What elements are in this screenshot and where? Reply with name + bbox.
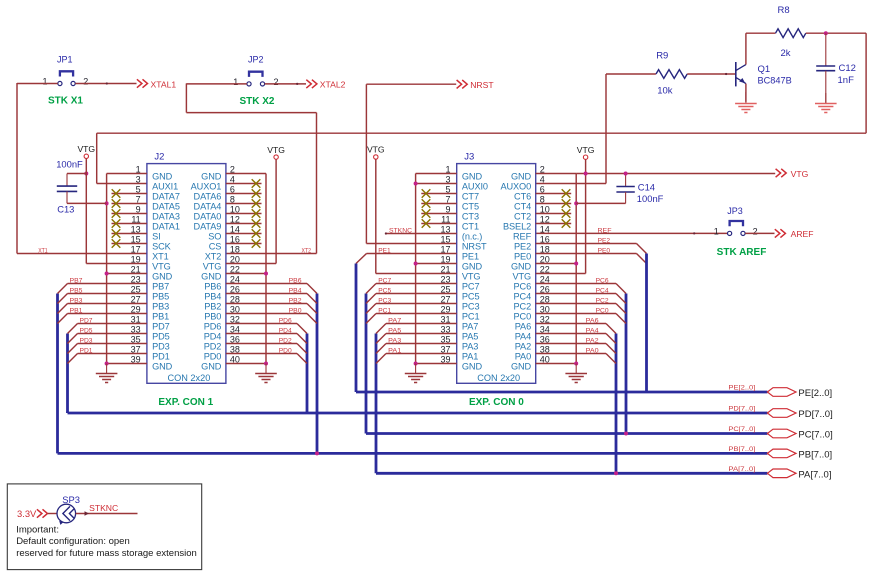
- note text: [16, 524, 197, 559]
- wire PE1 with bus entry (J3 pin17): [356, 247, 457, 263]
- connector J3 pin names: [462, 172, 532, 372]
- svg-text:PA7: PA7: [462, 322, 478, 332]
- svg-text:PA0: PA0: [515, 352, 531, 362]
- svg-text:JP1: JP1: [57, 54, 73, 64]
- svg-text:STKNC: STKNC: [89, 503, 118, 513]
- wire XT1 net (JP1 pin1 to J2 pin17): [17, 83, 147, 254]
- svg-text:CON 2x20: CON 2x20: [477, 373, 520, 383]
- svg-text:PE1: PE1: [378, 247, 391, 254]
- svg-text:PE[2..0]: PE[2..0]: [798, 388, 832, 399]
- chevron 3.3V: [37, 509, 48, 517]
- port XTAL2: [306, 80, 345, 90]
- svg-text:PD6: PD6: [204, 322, 222, 332]
- svg-text:VTG: VTG: [203, 262, 222, 272]
- svg-text:PE0: PE0: [598, 248, 611, 255]
- svg-text:EXP. CON 1: EXP. CON 1: [158, 397, 213, 408]
- power VTG at J3 left: [374, 155, 378, 159]
- wires J3 pins 23-29 PC7 PC5 PC3 PC1 with bus entries: [366, 278, 457, 324]
- no-connect X marks J3 left pins 5-11: [421, 189, 456, 228]
- svg-text:PE0: PE0: [514, 252, 531, 262]
- svg-text:GND: GND: [511, 262, 532, 272]
- svg-text:PD2: PD2: [204, 342, 222, 352]
- svg-text:VTG: VTG: [462, 272, 481, 282]
- svg-text:PB2: PB2: [289, 298, 302, 305]
- svg-text:CON 2x20: CON 2x20: [167, 373, 210, 383]
- power VTG at J2 left: [84, 154, 88, 158]
- svg-text:PB7: PB7: [70, 278, 83, 285]
- svg-text:NRST: NRST: [470, 80, 494, 90]
- port XTAL1: [137, 79, 176, 89]
- jumper JP1: [42, 54, 88, 86]
- svg-text:PD7: PD7: [80, 318, 93, 325]
- svg-text:VTG: VTG: [791, 169, 809, 179]
- svg-text:2k: 2k: [781, 48, 791, 59]
- bus PA right of J3: [615, 334, 618, 474]
- svg-text:10k: 10k: [657, 86, 673, 97]
- svg-text:GND: GND: [462, 172, 483, 182]
- wire VTG drop to J3 pin22: [536, 159, 586, 273]
- svg-text:PB3: PB3: [70, 298, 83, 305]
- svg-text:Important:: Important:: [16, 524, 59, 535]
- svg-text:JP3: JP3: [727, 206, 743, 216]
- svg-text:1nF: 1nF: [838, 75, 855, 86]
- svg-text:reserved for future mass stora: reserved for future mass storage extensi…: [16, 548, 197, 559]
- connector J2 pin numbers: [131, 165, 240, 365]
- wire XT2 net (JP2 pin1 to J2 pin18): [186, 83, 316, 253]
- wire JP3 pin2 to AREF: [745, 232, 774, 234]
- svg-text:PD[7..0]: PD[7..0]: [728, 406, 755, 413]
- svg-text:PB2: PB2: [204, 302, 221, 312]
- solder point SP3 symbol: [57, 504, 76, 525]
- wire VTG drop to J3 pin21: [376, 159, 457, 273]
- svg-text:AUXI0: AUXI0: [462, 182, 488, 192]
- svg-text:PB0: PB0: [204, 312, 221, 322]
- svg-text:DATA5: DATA5: [152, 202, 180, 212]
- svg-text:GND: GND: [462, 362, 483, 372]
- svg-text:PA4: PA4: [586, 328, 599, 335]
- bus PE left of J3: [355, 264, 358, 393]
- bus PB[7..0] horizontal: [58, 452, 768, 455]
- svg-text:BSEL2: BSEL2: [503, 222, 531, 232]
- svg-text:CT6: CT6: [514, 192, 531, 202]
- svg-text:PC2: PC2: [514, 302, 532, 312]
- svg-text:GND: GND: [201, 172, 222, 182]
- connector J3 box: [457, 164, 536, 384]
- transistor Q1 BC847B: [736, 62, 792, 86]
- svg-text:PA5: PA5: [462, 332, 478, 342]
- svg-text:XT1: XT1: [152, 252, 169, 262]
- wire REF net (J3 pin14 to JP3): [536, 232, 728, 234]
- svg-text:PD6: PD6: [279, 318, 292, 325]
- svg-text:PC1: PC1: [378, 308, 391, 315]
- svg-text:17: 17: [131, 245, 141, 255]
- svg-text:SI: SI: [152, 232, 160, 242]
- wire STKNC from SP3: [76, 511, 138, 515]
- svg-text:3.3V: 3.3V: [17, 508, 37, 519]
- svg-text:GND: GND: [511, 362, 532, 372]
- svg-text:GND: GND: [462, 262, 483, 272]
- wire J3 GND left rail (pins 1,3,19,39): [416, 174, 457, 364]
- ground below J3 right: [575, 364, 577, 374]
- connector J2 box: [147, 164, 226, 384]
- svg-text:DATA6: DATA6: [194, 192, 222, 202]
- wires J3 pins 32-38 PA6 PA4 PA2 PA0 with bus entries: [536, 318, 616, 364]
- svg-text:PD3: PD3: [80, 338, 93, 345]
- svg-text:PE2: PE2: [514, 242, 531, 252]
- svg-text:SP3: SP3: [62, 494, 80, 505]
- port PD[7..0]: [728, 406, 832, 420]
- port PB[7..0]: [728, 446, 832, 460]
- svg-text:2: 2: [753, 227, 758, 237]
- bus PC left of J3: [365, 294, 368, 434]
- wire R9 to Q1 base: [687, 73, 735, 75]
- svg-text:PB0: PB0: [289, 308, 302, 315]
- svg-text:AREF: AREF: [791, 229, 814, 239]
- svg-text:PB4: PB4: [289, 288, 302, 295]
- svg-text:CT2: CT2: [514, 212, 531, 222]
- port VTG: [776, 169, 809, 179]
- svg-text:PC5: PC5: [378, 288, 391, 295]
- bus PE[2..0] horizontal: [356, 391, 767, 394]
- svg-text:PC[7..0]: PC[7..0]: [798, 430, 832, 441]
- svg-text:PB5: PB5: [152, 292, 169, 302]
- svg-text:R9: R9: [656, 51, 668, 62]
- wire R8 to C12 node: [806, 32, 866, 34]
- svg-text:PA6: PA6: [515, 322, 531, 332]
- svg-text:PC0: PC0: [596, 308, 609, 315]
- svg-text:VTG: VTG: [267, 145, 285, 155]
- svg-text:REF: REF: [513, 232, 532, 242]
- junction dots J2 right rail: [264, 272, 268, 276]
- power VTG at J2 right: [274, 155, 278, 159]
- svg-text:GND: GND: [152, 172, 173, 182]
- svg-text:AUXI1: AUXI1: [152, 182, 178, 192]
- wires J2 pins 24-30 PB6 PB4 PB2 PB0 with bus entries: [226, 278, 317, 324]
- capacitor C13 100nF: [56, 159, 106, 215]
- no-connect X marks J3 right pins 6-12: [536, 189, 572, 228]
- svg-text:PD7: PD7: [152, 322, 170, 332]
- svg-text:PB6: PB6: [204, 282, 221, 292]
- svg-text:PB1: PB1: [70, 308, 83, 315]
- wires J2 pins 23-29 PB7 PB5 PB3 PB1 with bus entries: [58, 278, 147, 324]
- svg-text:PC3: PC3: [378, 298, 391, 305]
- junction dots J3 right rail: [574, 201, 578, 205]
- svg-text:2: 2: [274, 77, 279, 87]
- svg-text:VTG: VTG: [577, 145, 595, 155]
- note box SP3: [7, 484, 201, 570]
- svg-text:XT2: XT2: [302, 247, 312, 254]
- port NRST: [457, 80, 495, 90]
- svg-text:PA5: PA5: [388, 328, 401, 335]
- svg-text:CT5: CT5: [462, 202, 479, 212]
- svg-text:JP2: JP2: [248, 55, 264, 65]
- svg-text:PB7: PB7: [152, 282, 169, 292]
- svg-text:CT1: CT1: [462, 222, 479, 232]
- svg-text:100nF: 100nF: [637, 193, 664, 204]
- wire VTG drop to J2 pin19: [86, 159, 147, 264]
- svg-text:C13: C13: [57, 204, 74, 215]
- no-connect X marks J2 left pins 5-15: [112, 189, 147, 248]
- wires J3 pins 24-30 PC6 PC4 PC2 PC0 with bus entries: [536, 278, 626, 324]
- wire AUX net (J2 AUXI1 to R8/C12 node): [97, 33, 866, 183]
- svg-text:PB1: PB1: [152, 312, 169, 322]
- svg-text:PA2: PA2: [515, 342, 531, 352]
- svg-text:3: 3: [136, 175, 141, 185]
- connector J3 pin numbers: [440, 165, 549, 365]
- svg-text:VTG: VTG: [77, 144, 95, 154]
- wire J2 GND left rail (pins 1,21,39): [107, 174, 147, 364]
- svg-text:PD4: PD4: [204, 332, 222, 342]
- bus PE right of J3: [645, 254, 648, 393]
- svg-text:REF: REF: [598, 227, 612, 234]
- svg-text:EXP. CON 0: EXP. CON 0: [469, 397, 524, 408]
- svg-text:18: 18: [230, 245, 240, 255]
- wire JP1 pin2 to XTAL1: [75, 82, 136, 84]
- wires J2 pins 32-38 PD6 PD4 PD2 PD0 with bus entries: [226, 318, 307, 364]
- svg-text:CT7: CT7: [462, 192, 479, 202]
- svg-text:PA4: PA4: [515, 332, 531, 342]
- svg-text:PC5: PC5: [462, 292, 480, 302]
- wires PE2 PE0 with bus entries (J3 pins 16,18): [536, 238, 647, 264]
- junction R8/C12: [824, 31, 828, 35]
- bus PD right of J2: [306, 334, 309, 414]
- junction dots bus tees: [315, 451, 319, 455]
- svg-text:PE[2..0]: PE[2..0]: [728, 385, 755, 392]
- svg-text:SO: SO: [208, 232, 221, 242]
- no-connect X marks J2 right pins 4-16: [226, 179, 262, 248]
- wires J2 pins 31-37 PD7 PD5 PD3 PD1 with bus entries: [68, 318, 147, 364]
- wires J3 pins 31-37 PA7 PA5 PA3 PA1 with bus entries: [376, 318, 457, 364]
- svg-text:DATA1: DATA1: [152, 222, 180, 232]
- svg-text:PB[7..0]: PB[7..0]: [798, 449, 832, 460]
- port AREF: [775, 229, 814, 239]
- ground below J2 left: [106, 364, 108, 374]
- bus PC right of J3: [625, 294, 628, 434]
- wire J3 GND right rail (pins 2,20,40): [536, 174, 577, 364]
- svg-text:STKNC: STKNC: [389, 227, 412, 234]
- svg-text:PC[7..0]: PC[7..0]: [728, 426, 755, 433]
- svg-text:PC3: PC3: [462, 302, 480, 312]
- capacitor C12: [816, 33, 856, 103]
- svg-text:PD4: PD4: [279, 328, 292, 335]
- ground below J2 right: [265, 364, 267, 374]
- port PE[2..0]: [728, 385, 832, 399]
- svg-text:14: 14: [540, 225, 550, 235]
- svg-text:PD[7..0]: PD[7..0]: [798, 409, 832, 420]
- svg-text:PB3: PB3: [152, 302, 169, 312]
- svg-text:DATA3: DATA3: [152, 212, 180, 222]
- connector J2 pin names: [152, 172, 222, 372]
- junction dot VTG tap: [584, 172, 588, 176]
- svg-text:BC847B: BC847B: [758, 76, 792, 86]
- svg-text:PC6: PC6: [514, 282, 532, 292]
- svg-text:XT1: XT1: [38, 247, 48, 254]
- svg-text:PC6: PC6: [596, 278, 609, 285]
- svg-text:GND: GND: [152, 362, 173, 372]
- power VTG at J3 right: [583, 155, 587, 159]
- svg-text:PC7: PC7: [462, 282, 480, 292]
- svg-text:PC7: PC7: [378, 278, 391, 285]
- wire Q1 emitter to ground: [745, 84, 747, 102]
- wire J2 GND right rail (pins 2,22,40): [226, 174, 266, 364]
- wire AUXO0 to R9 (J3 pin4 riser): [536, 74, 656, 184]
- svg-text:2: 2: [83, 77, 88, 87]
- svg-text:PA2: PA2: [586, 338, 599, 345]
- wire 3.3V to SP3: [48, 513, 57, 515]
- svg-text:PC4: PC4: [596, 288, 609, 295]
- svg-text:PD0: PD0: [279, 348, 292, 355]
- svg-text:PC0: PC0: [514, 312, 532, 322]
- jumper JP2: [233, 55, 278, 87]
- svg-text:AUXO1: AUXO1: [191, 182, 222, 192]
- svg-text:GND: GND: [201, 362, 222, 372]
- svg-text:PA3: PA3: [388, 338, 401, 345]
- svg-text:PB5: PB5: [70, 288, 83, 295]
- svg-text:PE1: PE1: [462, 252, 479, 262]
- capacitor C14 100nF: [576, 174, 663, 205]
- svg-text:DATA0: DATA0: [194, 212, 222, 222]
- svg-text:PD5: PD5: [152, 332, 170, 342]
- svg-text:PA1: PA1: [388, 348, 401, 355]
- bus PC[7..0] horizontal: [366, 432, 767, 435]
- svg-text:J2: J2: [154, 151, 164, 162]
- svg-text:R8: R8: [778, 5, 790, 16]
- resistor R9: [656, 51, 687, 97]
- svg-text:PD1: PD1: [80, 348, 93, 355]
- bus PB left of J2: [56, 294, 59, 454]
- svg-text:GND: GND: [511, 172, 532, 182]
- svg-text:PB4: PB4: [204, 292, 221, 302]
- svg-text:15: 15: [440, 235, 450, 245]
- svg-text:PA6: PA6: [586, 318, 599, 325]
- svg-text:C14: C14: [638, 181, 655, 192]
- svg-text:PC1: PC1: [462, 312, 480, 322]
- svg-text:PC2: PC2: [596, 298, 609, 305]
- svg-text:DATA9: DATA9: [194, 222, 222, 232]
- svg-text:Q1: Q1: [758, 64, 771, 75]
- wire VTG drop to J2 pin20: [226, 159, 276, 263]
- bus PD[7..0] horizontal: [68, 412, 768, 415]
- svg-text:C12: C12: [839, 63, 856, 74]
- svg-text:VTG: VTG: [152, 262, 171, 272]
- svg-text:XTAL2: XTAL2: [320, 80, 346, 90]
- svg-text:1: 1: [42, 77, 47, 87]
- svg-text:PC4: PC4: [514, 292, 532, 302]
- bus PA[7..0] horizontal: [376, 472, 767, 475]
- svg-text:PA[7..0]: PA[7..0]: [798, 469, 831, 480]
- svg-text:CT3: CT3: [462, 212, 479, 222]
- svg-text:PD0: PD0: [204, 352, 222, 362]
- svg-text:PE2: PE2: [598, 238, 611, 245]
- svg-text:PA1: PA1: [462, 352, 478, 362]
- svg-text:4: 4: [540, 175, 545, 185]
- svg-text:CT4: CT4: [514, 202, 531, 212]
- junction dots J3 left rail: [414, 182, 418, 186]
- wire JP2 pin2 to XTAL2: [265, 83, 306, 85]
- bus PD left of J2: [66, 334, 69, 414]
- svg-text:PA3: PA3: [462, 342, 478, 352]
- wire NRST net (to J3 pin15): [366, 84, 456, 243]
- junction dot C14 top: [624, 172, 628, 176]
- svg-text:NRST: NRST: [462, 242, 487, 252]
- svg-text:DATA7: DATA7: [152, 192, 180, 202]
- wire VTG net to port (J3 area): [576, 173, 775, 175]
- svg-text:AUXO0: AUXO0: [500, 182, 531, 192]
- wire Q1 collector to R8: [746, 33, 776, 64]
- svg-text:STK X2: STK X2: [239, 96, 274, 107]
- svg-text:CS: CS: [209, 242, 222, 252]
- port PA[7..0]: [728, 466, 831, 480]
- svg-text:GND: GND: [201, 272, 222, 282]
- svg-text:Default configuration: open: Default configuration: open: [16, 536, 130, 547]
- svg-text:STK X1: STK X1: [48, 95, 83, 106]
- wire STKNC to J3 pin13: [385, 232, 457, 234]
- ground below Q1: [745, 92, 747, 104]
- svg-text:GND: GND: [152, 272, 173, 282]
- svg-text:PD3: PD3: [152, 342, 170, 352]
- svg-text:PB[7..0]: PB[7..0]: [728, 446, 755, 453]
- svg-text:PA[7..0]: PA[7..0]: [728, 466, 755, 473]
- svg-text:(n.c.): (n.c.): [462, 232, 482, 242]
- svg-text:VTG: VTG: [513, 272, 532, 282]
- junction dots J2 left rail: [84, 172, 88, 176]
- svg-text:SCK: SCK: [152, 242, 172, 252]
- svg-text:XTAL1: XTAL1: [151, 79, 177, 89]
- svg-text:1: 1: [233, 77, 238, 87]
- resistor R8: [776, 5, 806, 59]
- bus PA left of J3: [375, 334, 378, 474]
- svg-text:100nF: 100nF: [56, 159, 83, 170]
- svg-text:PA0: PA0: [586, 348, 599, 355]
- svg-text:PD1: PD1: [152, 352, 170, 362]
- svg-text:XT2: XT2: [205, 252, 222, 262]
- svg-text:PB6: PB6: [289, 278, 302, 285]
- svg-text:DATA4: DATA4: [194, 202, 222, 212]
- ground below J3 left: [415, 364, 417, 374]
- svg-text:VTG: VTG: [367, 145, 385, 155]
- port PC[7..0]: [728, 426, 832, 440]
- bus corner PD left: [66, 412, 69, 413]
- svg-text:PD5: PD5: [80, 328, 93, 335]
- svg-text:1: 1: [714, 227, 719, 237]
- bus PB right of J2: [316, 294, 319, 454]
- jumper JP3: [714, 206, 758, 237]
- svg-text:STK AREF: STK AREF: [717, 247, 767, 258]
- ground below C12: [825, 93, 827, 104]
- svg-text:PD2: PD2: [279, 338, 292, 345]
- svg-text:PA7: PA7: [388, 318, 401, 325]
- svg-text:J3: J3: [464, 151, 474, 162]
